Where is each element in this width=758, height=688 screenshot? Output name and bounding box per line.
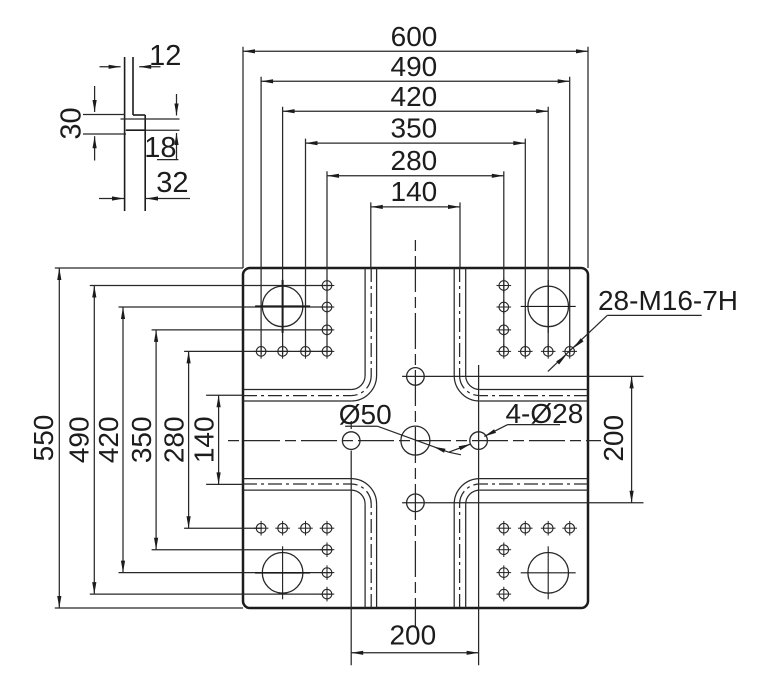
dimension 600 top <box>243 21 588 268</box>
platen plate outline <box>243 268 588 608</box>
horizontal centerline <box>228 440 601 442</box>
corner bore top-left <box>255 280 310 333</box>
svg-text:Ø50: Ø50 <box>339 399 392 430</box>
dimension 280 left <box>159 351 244 528</box>
dimension 200 right <box>598 376 634 502</box>
svg-text:280: 280 <box>159 416 190 463</box>
dimension 350 left <box>126 330 243 550</box>
bore D28 bottom <box>402 494 643 512</box>
bore D28 right <box>470 365 488 665</box>
corner bore bottom-left <box>255 546 310 599</box>
svg-text:550: 550 <box>28 415 59 462</box>
dimension 140 top <box>371 176 460 268</box>
svg-text:30: 30 <box>55 107 87 139</box>
svg-text:28-M16-7H: 28-M16-7H <box>598 285 738 316</box>
detail dimension 12 <box>100 40 182 72</box>
svg-text:420: 420 <box>391 81 438 112</box>
svg-text:490: 490 <box>391 51 438 82</box>
vertical centerline <box>414 240 416 626</box>
T-slot channel edge bottom-right <box>454 479 588 608</box>
svg-text:140: 140 <box>391 176 438 207</box>
corner bore top-right <box>521 280 576 333</box>
corner bore bottom-right <box>521 546 576 599</box>
svg-text:12: 12 <box>149 40 181 72</box>
svg-text:200: 200 <box>598 415 629 462</box>
dimension 350 top <box>306 113 526 269</box>
T-slot channel edge top-right <box>454 268 588 401</box>
svg-text:490: 490 <box>64 416 95 463</box>
svg-text:32: 32 <box>156 167 188 199</box>
T-slot channel edge top-left <box>243 268 377 401</box>
dimension 550 left <box>28 268 243 608</box>
svg-text:280: 280 <box>391 145 438 176</box>
bore D28 top <box>402 368 643 386</box>
bore D28 left <box>342 421 360 665</box>
dimension 280 top <box>327 145 504 268</box>
detail dimension 30 <box>55 86 126 161</box>
dimension 420 left <box>93 307 243 573</box>
dimension 140 left <box>188 395 243 484</box>
svg-text:350: 350 <box>126 416 157 463</box>
detail: platen edge profile <box>125 57 146 211</box>
28 M16 tapped holes <box>254 278 577 601</box>
label D50 with leader <box>339 399 471 455</box>
detail dimension 32 <box>99 167 190 201</box>
dimension 490 top <box>261 51 570 268</box>
dimension 200 bottom <box>351 620 478 655</box>
hole pattern row lines bottom-left <box>243 528 333 594</box>
svg-text:600: 600 <box>391 21 438 52</box>
dimension 490 left <box>64 286 244 595</box>
detail dimension 18 <box>121 94 180 164</box>
svg-text:140: 140 <box>188 416 219 463</box>
T-slot channel edge bottom-left <box>243 479 377 608</box>
hole pattern column lines (top corners) <box>261 268 570 354</box>
dimension 420 top <box>283 81 549 268</box>
center bore D50 <box>401 426 430 455</box>
svg-text:420: 420 <box>93 416 124 463</box>
label 28-M16-7H with leader <box>548 285 738 371</box>
hole pattern row lines top-left <box>243 286 333 352</box>
svg-text:200: 200 <box>389 620 436 651</box>
label 4-D28 with leader <box>484 398 583 436</box>
svg-text:350: 350 <box>391 113 438 144</box>
